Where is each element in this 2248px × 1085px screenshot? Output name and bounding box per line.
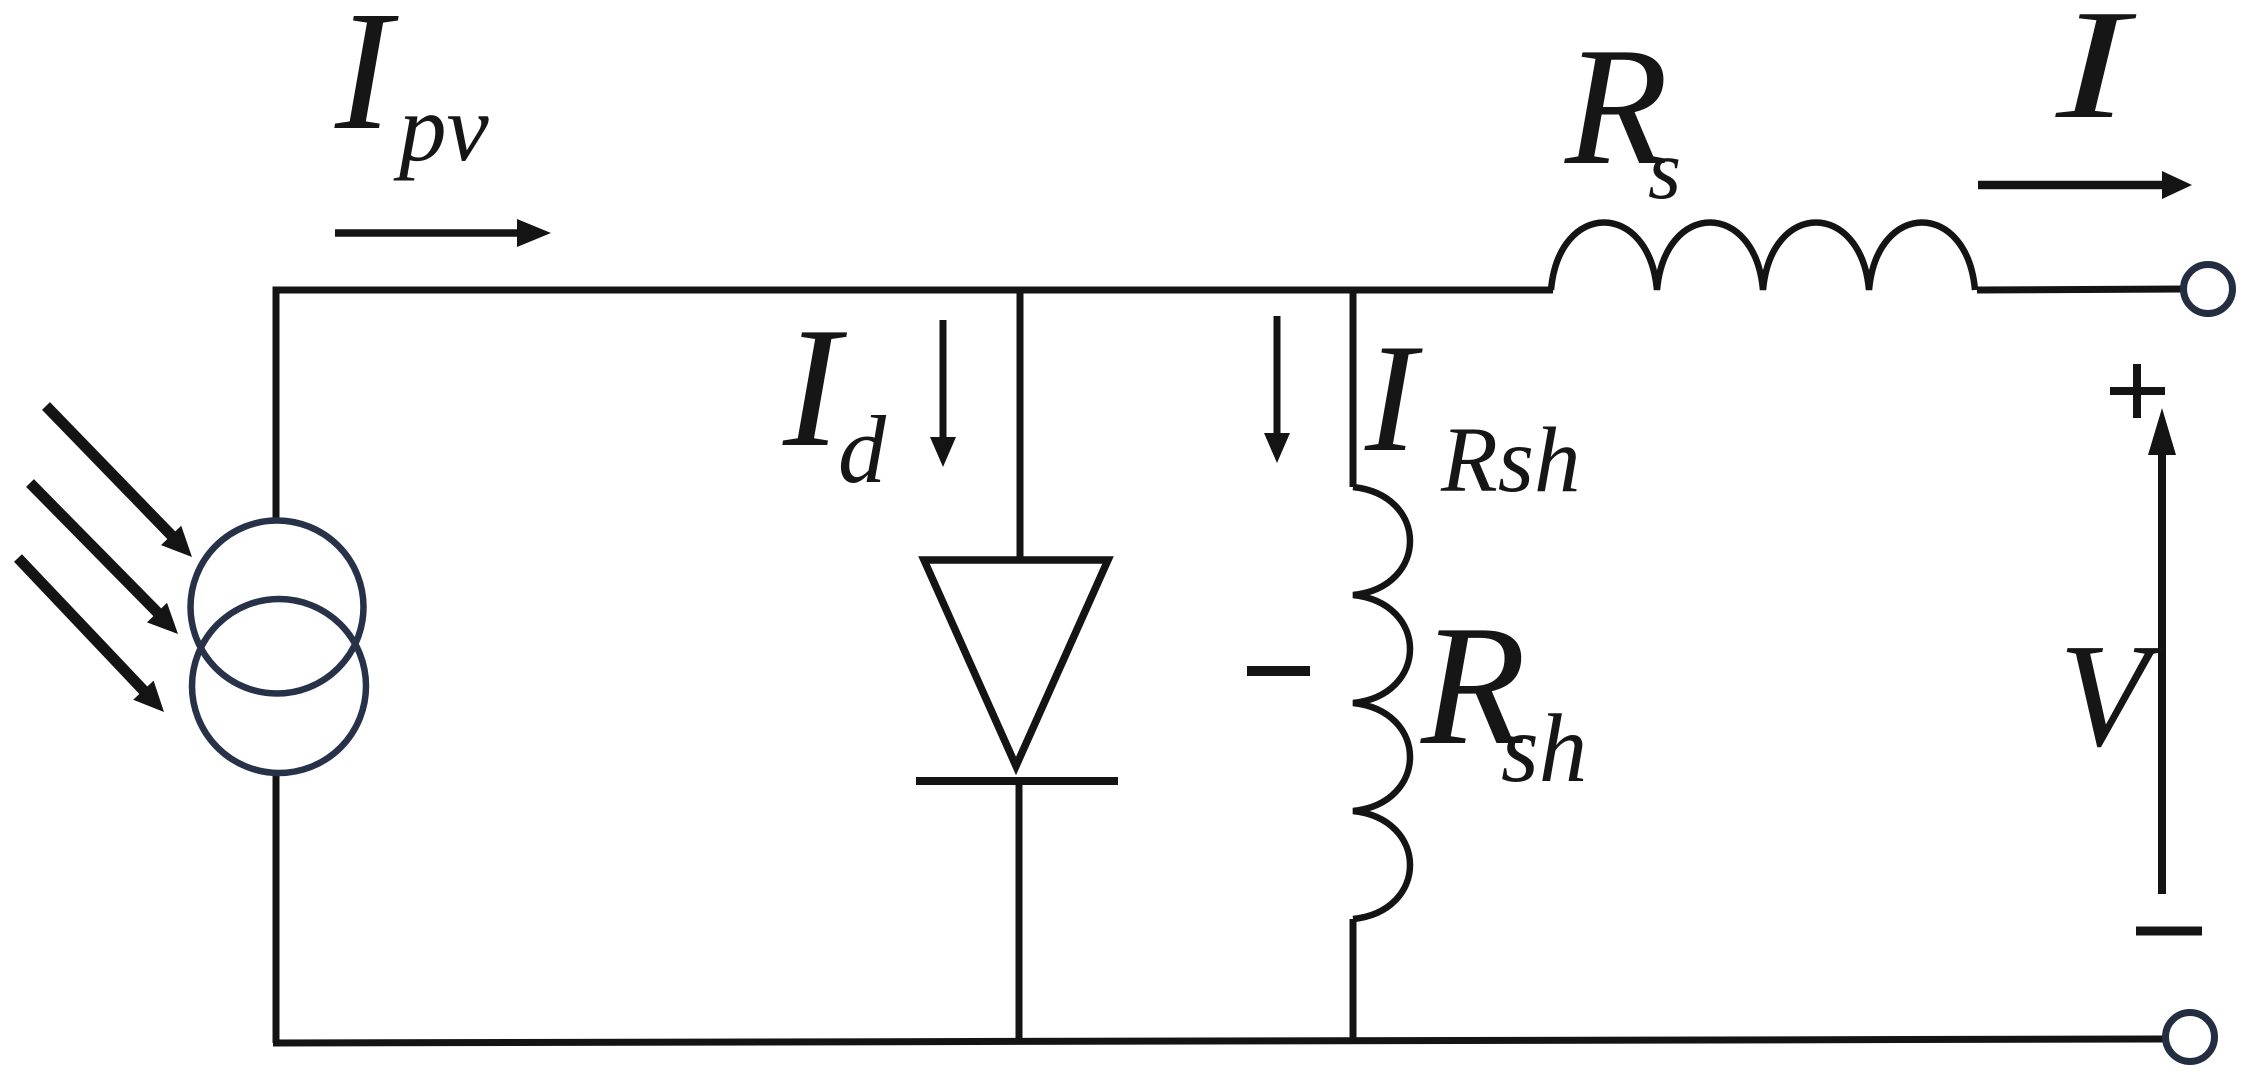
arrow V (voltage measurement): [2148, 408, 2176, 894]
arrow Id (current into diode): [930, 320, 956, 467]
svg-text:I: I: [1364, 312, 1423, 484]
terminal: positive output node: [2184, 265, 2233, 314]
diode D: cathode wire: [1016, 785, 1023, 1043]
svg-text:I: I: [2055, 0, 2138, 151]
arrow Ipv (current direction): [335, 219, 551, 247]
shunt branch: bottom wire: [1350, 919, 1357, 1043]
diode D: triangle: [924, 560, 1108, 766]
svg-text:Rsh: Rsh: [1440, 409, 1581, 512]
plus sign (output polarity): [2110, 364, 2165, 418]
minus sign (output polarity): [2136, 927, 2202, 936]
terminal: negative output node: [2166, 1013, 2215, 1062]
diode D: cathode bar: [916, 777, 1118, 785]
shunt branch: top wire: [1350, 290, 1357, 487]
minus sign (voltage polarity at Rsh): [1247, 666, 1310, 676]
svg-text:sh: sh: [1501, 695, 1587, 802]
svg-text:I: I: [334, 0, 399, 165]
diode D: anode wire: [1017, 290, 1024, 560]
svg-text:s: s: [1648, 123, 1681, 217]
arrow IRsh (current into shunt): [1264, 316, 1290, 463]
current source Ipv (two overlapping circles): [191, 521, 367, 774]
wire: left vertical + top horizontal bus: [276, 290, 1553, 521]
light arrow 3: [18, 558, 164, 712]
resistor Rs (horizontal coil, 4 arcs): [1551, 223, 1975, 291]
svg-text:pv: pv: [393, 75, 490, 181]
light arrow 1: [46, 406, 192, 557]
svg-text:d: d: [838, 396, 887, 503]
light arrow 2: [30, 483, 178, 634]
wire: bottom horizontal bus: [273, 1039, 2166, 1043]
svg-text:V: V: [2059, 614, 2164, 778]
wire: left vertical below current source: [273, 772, 280, 1043]
arrow I (output current direction): [1978, 171, 2192, 199]
wire: top-right segment from Rs to positive terminal: [1977, 289, 2184, 290]
resistor Rsh (vertical coil, 4 arcs): [1353, 487, 1410, 919]
